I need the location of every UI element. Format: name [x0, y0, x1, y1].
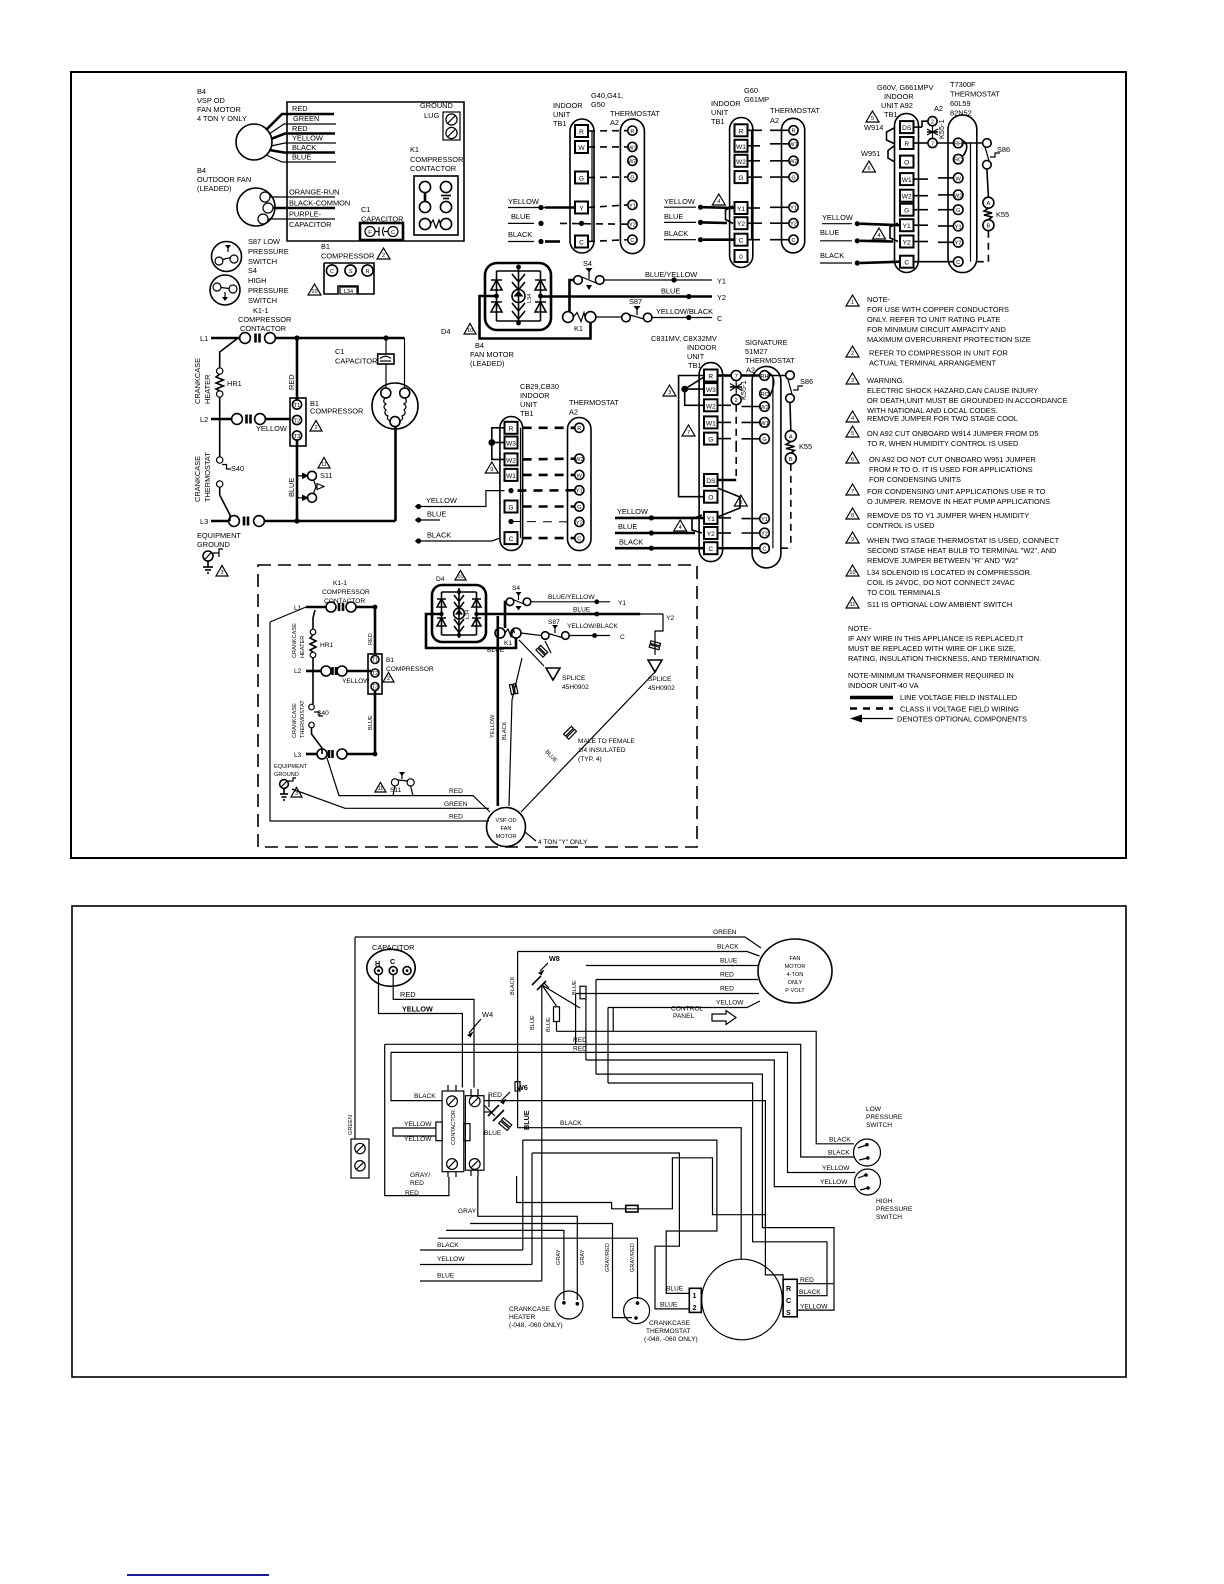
svg-text:THERMOSTAT: THERMOSTAT [745, 356, 795, 365]
wire S87 to C [652, 307, 723, 323]
svg-text:RC: RC [760, 392, 768, 398]
svg-text:G40,G41,: G40,G41, [591, 91, 623, 100]
note triangle 1 [846, 295, 859, 306]
svg-text:RED: RED [720, 972, 734, 979]
svg-text:S: S [349, 269, 353, 275]
svg-text:THERMOSTAT: THERMOSTAT [770, 106, 820, 115]
svg-text:THERMOSTAT: THERMOSTAT [646, 1328, 690, 1335]
wire GREEN vertical + ground lug (bottom) [348, 937, 369, 1178]
staircase wire A to LP top [557, 1031, 855, 1144]
svg-text:BLUE/YELLOW: BLUE/YELLOW [548, 594, 595, 601]
svg-text:RH: RH [954, 141, 962, 147]
ground lug [420, 101, 460, 140]
label EQUIPMENT GROUND (opt) [274, 764, 308, 778]
note triangle 7 [846, 484, 859, 495]
svg-text:Y1: Y1 [903, 223, 911, 230]
svg-text:6: 6 [851, 457, 854, 463]
svg-text:B4: B4 [197, 87, 206, 96]
note triangle 4 [846, 411, 859, 422]
svg-text:T3: T3 [294, 434, 301, 440]
wire L3 [211, 518, 396, 523]
warning triangle 5 [866, 111, 879, 122]
svg-text:W1: W1 [506, 473, 516, 480]
svg-text:G60: G60 [744, 86, 758, 95]
svg-text:TB1: TB1 [688, 361, 702, 370]
labels [711, 86, 820, 126]
svg-text:F: F [368, 230, 372, 236]
svg-text:1: 1 [693, 1291, 697, 1300]
wire GREEN to fan motor [355, 929, 761, 948]
svg-text:L34: L34 [465, 610, 471, 619]
svg-text:RED: RED [720, 986, 734, 993]
switch S40 [217, 457, 245, 521]
label K1-1 compressor contactor (opt) [322, 580, 370, 605]
svg-text:(TYP. 4): (TYP. 4) [578, 756, 602, 763]
svg-text:CLASS II VOLTAGE FIELD WIRING: CLASS II VOLTAGE FIELD WIRING [900, 705, 1019, 714]
dashed enclosure [258, 565, 697, 847]
note triangle 11 [846, 597, 859, 608]
svg-text:Y2: Y2 [955, 241, 962, 247]
terminal strip TB1 (C831MV) [699, 363, 723, 562]
wire BLUE from B4 [266, 153, 336, 163]
svg-text:(-048, -060 ONLY): (-048, -060 ONLY) [509, 1322, 563, 1329]
wires between TB1 (C831MV) and A2 rows [718, 405, 760, 548]
svg-text:UNIT: UNIT [553, 110, 571, 119]
svg-text:REMOVE DS TO Y1 JUMPER WHEN HU: REMOVE DS TO Y1 JUMPER WHEN HUMIDITY [867, 511, 1029, 520]
svg-text:TB1: TB1 [520, 409, 534, 418]
svg-text:A: A [789, 435, 793, 441]
wire D4 left loop (opt) [426, 614, 516, 648]
svg-text:W2: W2 [760, 405, 768, 411]
svg-text:W2: W2 [736, 159, 746, 166]
rectifier D4 [485, 263, 551, 330]
crankcase thermostat (bottom) [624, 1298, 698, 1343]
svg-text:G: G [738, 175, 743, 182]
svg-text:CONTROL: CONTROL [671, 1006, 704, 1013]
svg-text:W: W [578, 145, 585, 152]
svg-text:DS: DS [706, 478, 716, 485]
svg-text:C: C [708, 546, 713, 553]
svg-text:K1: K1 [410, 145, 419, 154]
svg-text:ACTUAL TERMINAL ARRANGEMENT: ACTUAL TERMINAL ARRANGEMENT [869, 359, 997, 368]
svg-text:R: R [509, 426, 514, 433]
warning triangle 10 [308, 284, 321, 295]
svg-text:B1: B1 [321, 242, 330, 251]
svg-text:HIGH: HIGH [248, 276, 266, 285]
svg-text:C: C [579, 240, 584, 247]
equipment ground symbol (opt) [280, 778, 296, 800]
svg-text:BLACK: BLACK [560, 1120, 582, 1127]
wire BLUE to fan motor [586, 958, 758, 966]
svg-text:RED: RED [400, 990, 416, 999]
wire BLACK into contactor [391, 1052, 442, 1100]
labels [520, 382, 619, 418]
svg-text:L3: L3 [200, 517, 208, 526]
svg-text:UNIT: UNIT [520, 400, 538, 409]
svg-text:MUST BE REPLACED WITH WIRE OF: MUST BE REPLACED WITH WIRE OF LIKE SIZE, [848, 644, 1016, 653]
switch S86 (A92) [963, 139, 1010, 169]
svg-text:BLACK: BLACK [502, 721, 508, 740]
jumper DS to Y1 [718, 488, 741, 517]
note triangle 8 [846, 508, 859, 519]
transformer note [848, 671, 1014, 690]
svg-text:RED: RED [573, 1046, 587, 1053]
warning triangle 2b [310, 421, 322, 432]
wire GREEN from B4 [269, 114, 336, 134]
svg-text:A2: A2 [569, 408, 578, 417]
svg-text:K55: K55 [799, 442, 812, 451]
wire RED from capacitor C [393, 975, 474, 1088]
svg-text:C: C [390, 957, 395, 966]
switch S4 (opt) [505, 585, 531, 628]
svg-text:G: G [577, 505, 581, 511]
capacitor C1 branch [335, 347, 377, 366]
svg-text:WARNING.: WARNING. [867, 376, 905, 385]
svg-text:GROUND: GROUND [420, 101, 453, 110]
svg-text:G: G [708, 437, 713, 444]
svg-text:INDOOR: INDOOR [711, 99, 741, 108]
svg-text:8: 8 [739, 500, 742, 506]
wire GRAY from contactor bottom [446, 1176, 577, 1300]
svg-text:ON A92 CUT ONBOARD W914 JUMPER: ON A92 CUT ONBOARD W914 JUMPER FROM D5 [867, 429, 1039, 438]
warning triangle 6 [863, 161, 876, 172]
contacts L1 (opt) [326, 602, 356, 612]
svg-text:INDOOR: INDOOR [687, 343, 717, 352]
svg-text:W2: W2 [506, 457, 516, 464]
svg-text:GRAY/RED: GRAY/RED [605, 1243, 611, 1272]
svg-text:W1: W1 [628, 145, 636, 151]
svg-text:Y2: Y2 [707, 531, 715, 538]
svg-text:BLUE: BLUE [287, 478, 296, 497]
wire motor bottom to L3 [394, 427, 397, 521]
svg-text:HEATER: HEATER [300, 636, 306, 658]
svg-text:BLACK: BLACK [829, 1137, 851, 1144]
svg-text:YELLOW: YELLOW [342, 678, 370, 685]
wire L2 (opt) [306, 670, 371, 673]
svg-text:CRANKCASE: CRANKCASE [292, 703, 298, 738]
svg-text:YELLOW: YELLOW [664, 197, 695, 206]
svg-text:BLUE: BLUE [664, 212, 683, 221]
svg-text:BLUE: BLUE [292, 153, 311, 162]
svg-text:YELLOW: YELLOW [820, 1179, 848, 1186]
dashed class II wires group1 [560, 131, 628, 242]
svg-text:1: 1 [851, 300, 854, 306]
warning triangle 8 [734, 495, 747, 506]
vertical dashed from node 2 to DS [718, 405, 737, 480]
svg-text:BLUE: BLUE [487, 647, 505, 654]
B1 compressor terminal box [290, 398, 306, 446]
control panel label + arrow [671, 1006, 736, 1025]
svg-text:GRAY: GRAY [580, 1249, 586, 1265]
wires GRAY/RED down to crankcase thermostat [438, 1224, 638, 1318]
wire BLUE diagonal to motor (opt) [521, 672, 655, 812]
svg-text:FOR USE WITH COPPER CONDUCTORS: FOR USE WITH COPPER CONDUCTORS [867, 305, 1009, 314]
warning triangle 4 (51M27) [674, 520, 687, 531]
svg-text:9: 9 [851, 537, 854, 543]
terminal strip TB1 (A92) [895, 114, 919, 273]
field wires group3 left [820, 213, 900, 266]
wire RED from contactor pin via W6 [488, 1095, 490, 1107]
svg-text:CONTACTOR: CONTACTOR [410, 164, 456, 173]
svg-text:BLUE: BLUE [368, 715, 374, 730]
svg-text:HR1: HR1 [320, 642, 334, 649]
svg-text:P VOLT: P VOLT [785, 988, 805, 994]
svg-text:RED: RED [488, 1092, 502, 1099]
terminal strip TB1 (G40) [570, 119, 594, 253]
wire BLACK to motor (opt) [502, 658, 522, 806]
svg-text:BLUE: BLUE [720, 958, 738, 965]
wire BLACK G to compressor circle [510, 952, 741, 1260]
relay K55 A-B (A92) [977, 169, 1009, 262]
svg-text:WHEN TWO STAGE THERMOSTAT IS U: WHEN TWO STAGE THERMOSTAT IS USED, CONNE… [867, 536, 1060, 545]
svg-text:MAXIMUM OVERCURRENT PROTECTION: MAXIMUM OVERCURRENT PROTECTION SIZE [867, 335, 1031, 344]
splice 1 with connector [519, 640, 589, 691]
svg-text:T7300F: T7300F [950, 80, 976, 89]
svg-text:(-048, -060 ONLY): (-048, -060 ONLY) [644, 1336, 698, 1343]
svg-text:GREEN: GREEN [293, 114, 319, 123]
crankcase thermostat label (opt) [292, 700, 306, 738]
svg-text:4: 4 [679, 525, 682, 531]
svg-text:3: 3 [220, 570, 223, 576]
svg-text:UNIT: UNIT [711, 108, 729, 117]
svg-text:Y1: Y1 [761, 517, 768, 523]
svg-text:G: G [956, 208, 960, 214]
svg-text:BLUE: BLUE [484, 1130, 502, 1137]
S87 low pressure switch [212, 242, 242, 272]
svg-text:3: 3 [668, 390, 671, 396]
svg-text:SPLICE: SPLICE [562, 675, 586, 682]
svg-text:Y2: Y2 [903, 240, 911, 247]
wires between TB1-A92 and T7300F [914, 178, 954, 262]
left field wires stack (bottom) [420, 985, 542, 1281]
staircase wire E to compressor BLACK loop [608, 1083, 827, 1296]
svg-text:S40: S40 [317, 710, 329, 717]
W6 connector [484, 1082, 531, 1137]
svg-text:YELLOW: YELLOW [404, 1136, 432, 1143]
contacts L2 (opt) [321, 666, 347, 676]
svg-text:GRAY/: GRAY/ [410, 1172, 430, 1179]
svg-text:A2: A2 [770, 116, 779, 125]
svg-text:10: 10 [467, 328, 473, 334]
svg-text:MOTOR: MOTOR [496, 834, 517, 840]
wire L1 corner down to motor [404, 338, 406, 389]
label S4 HIGH PRESSURE SWITCH [248, 266, 289, 305]
motor VSP OD (opt) [487, 808, 526, 847]
labels [877, 80, 1000, 119]
svg-text:GROUND: GROUND [197, 540, 230, 549]
bottom diagram frame [72, 906, 1126, 1377]
svg-text:FAN: FAN [790, 956, 801, 962]
svg-text:Y2: Y2 [576, 520, 583, 526]
svg-text:7: 7 [851, 489, 854, 495]
verticals from motor wires down [557, 980, 614, 1084]
K1 contactor box [414, 176, 458, 235]
svg-text:BLACK: BLACK [414, 1093, 436, 1100]
svg-text:K55-1: K55-1 [739, 380, 748, 400]
svg-text:5: 5 [851, 431, 854, 437]
svg-text:FOR CONDENSING UNITS: FOR CONDENSING UNITS [869, 475, 961, 484]
W8 connector [532, 954, 580, 1008]
jumper R-W3-W2 (CB29) [489, 428, 504, 460]
wire RED2 from B4 [271, 124, 335, 139]
svg-text:COMPRESSOR: COMPRESSOR [410, 155, 463, 164]
svg-text:R: R [708, 374, 713, 381]
svg-text:B: B [789, 457, 793, 463]
svg-text:L34: L34 [344, 289, 353, 295]
svg-text:BLUE: BLUE [437, 1273, 455, 1280]
svg-text:RED: RED [292, 124, 308, 133]
svg-text:10: 10 [849, 570, 855, 576]
relay K1 contacts [563, 312, 596, 333]
svg-text:UNIT: UNIT [687, 352, 705, 361]
warning triangle 4 (G60) [712, 194, 725, 205]
warning triangle 7 [682, 425, 695, 436]
svg-text:G: G [904, 208, 909, 215]
svg-text:ELECTRIC SHOCK HAZARD,CAN CAUS: ELECTRIC SHOCK HAZARD,CAN CAUSE INJURY [867, 386, 1038, 395]
label B1 COMPRESSOR [310, 399, 363, 416]
svg-text:BLACK: BLACK [828, 1150, 850, 1157]
svg-text:CB29,CB30: CB29,CB30 [520, 382, 559, 391]
jumper Y1-Y2 (A92) [890, 223, 898, 242]
svg-text:R: R [786, 1284, 792, 1293]
wire RED to fan motor [596, 972, 758, 980]
svg-text:Y2: Y2 [761, 531, 768, 537]
staircase wire C BLUE to HP bottom [586, 1060, 855, 1187]
thermostat A2 (51M27) [752, 366, 781, 568]
svg-text:K1-1: K1-1 [333, 580, 347, 587]
svg-text:45H0902: 45H0902 [648, 685, 675, 692]
svg-text:FROM R TO O. IT IS USED FOR AP: FROM R TO O. IT IS USED FOR APPLICATIONS [869, 465, 1033, 474]
field wires group5 left [615, 507, 704, 551]
wire D4 right BLUE to Y2 (opt) [477, 607, 675, 623]
relay K55 A-B (51M27) [781, 403, 812, 549]
svg-text:L34: L34 [527, 294, 533, 303]
resistor HR1 [216, 338, 242, 457]
wire S4 to Y1 (opt) [531, 594, 626, 607]
label B4 OUTDOOR FAN (LEADED) [197, 166, 251, 193]
svg-text:Y2: Y2 [629, 223, 636, 229]
svg-text:G: G [762, 437, 766, 443]
svg-text:GRAY: GRAY [458, 1208, 477, 1215]
svg-text:YELLOW: YELLOW [716, 1000, 744, 1007]
label B1 COMPRESSOR (opt) [386, 657, 434, 673]
warning triangle 2 [377, 248, 390, 259]
svg-text:ORANGE-RUN: ORANGE-RUN [289, 188, 340, 197]
svg-text:8: 8 [851, 513, 854, 519]
svg-text:T1: T1 [372, 658, 379, 664]
svg-text:B1: B1 [386, 657, 394, 664]
thermostat A2 (G40) [620, 119, 644, 254]
wire F to compressor RED stub [484, 1101, 834, 1284]
svg-text:G: G [579, 176, 584, 183]
svg-text:S86: S86 [800, 377, 813, 386]
contactor labels [404, 1092, 502, 1197]
jumper Y1-Y2 (G60) [726, 206, 734, 224]
svg-text:COMPRESSOR: COMPRESSOR [238, 315, 291, 324]
dashed wires (CB29) [511, 428, 575, 538]
switch S4 (suction) [570, 259, 605, 311]
svg-text:LUG: LUG [424, 111, 439, 120]
crankcase heater label (opt) [292, 623, 306, 658]
svg-text:THERMOSTAT: THERMOSTAT [569, 398, 619, 407]
svg-text:C1: C1 [335, 347, 344, 356]
svg-text:W1: W1 [736, 144, 746, 151]
svg-text:YELLOW: YELLOW [822, 213, 853, 222]
svg-text:TO R, WHEN HUMIDITY CONTROL IS: TO R, WHEN HUMIDITY CONTROL IS USED [867, 439, 1018, 448]
svg-text:A: A [987, 201, 991, 207]
svg-text:THERMOSTAT: THERMOSTAT [300, 700, 306, 738]
svg-text:PURPLE-: PURPLE- [289, 210, 322, 219]
switch S11 optional [297, 471, 333, 502]
svg-text:COMPRESSOR: COMPRESSOR [322, 589, 370, 596]
svg-text:W1: W1 [706, 420, 716, 427]
svg-text:VSP OD: VSP OD [197, 96, 225, 105]
svg-text:OR DEATH,UNIT MUST BE GROUNDED: OR DEATH,UNIT MUST BE GROUNDED IN ACCORD… [867, 396, 1067, 405]
svg-text:3: 3 [295, 791, 298, 797]
svg-text:S4: S4 [583, 259, 592, 268]
svg-text:CONTROL IS USED: CONTROL IS USED [867, 521, 934, 530]
svg-text:R: R [904, 141, 909, 148]
svg-text:CRANKCASE: CRANKCASE [292, 623, 298, 658]
svg-text:S87: S87 [548, 619, 560, 626]
resistor HR1 (opt) [310, 610, 334, 704]
svg-text:BLACK: BLACK [510, 976, 516, 995]
field wires group2 left [664, 197, 735, 242]
terminal strip TB1 (G60) [730, 118, 753, 268]
svg-text:O: O [904, 160, 909, 167]
svg-text:10: 10 [311, 289, 317, 295]
svg-text:4: 4 [851, 416, 854, 422]
svg-text:W8: W8 [549, 954, 560, 963]
svg-text:S40: S40 [231, 464, 244, 473]
svg-text:L2: L2 [200, 415, 208, 424]
svg-text:EQUIPMENT: EQUIPMENT [274, 764, 308, 770]
svg-text:C: C [391, 230, 395, 236]
svg-text:W2: W2 [628, 159, 636, 165]
svg-text:BLUE: BLUE [666, 1286, 684, 1293]
wire S87 to C (opt) [567, 623, 625, 641]
K55-1 spark gap [927, 119, 946, 139]
wire H to terminal 1 [523, 1140, 717, 1293]
splice 2 with wire from Y2 [648, 614, 675, 692]
jumper R to W3 dot (51M27) [682, 377, 704, 405]
wire RED vertical to T1 [287, 338, 297, 400]
svg-text:COMPRESSOR: COMPRESSOR [386, 666, 434, 673]
svg-text:PRESSURE: PRESSURE [876, 1206, 913, 1213]
svg-text:GROUND: GROUND [274, 772, 299, 778]
svg-text:2: 2 [931, 120, 934, 126]
label MALE TO FEMALE [578, 738, 636, 763]
svg-text:CAPACITOR: CAPACITOR [335, 357, 377, 366]
staircase wire B RED to LP bottom [385, 1037, 854, 1157]
wire L1 (opt) [306, 605, 377, 610]
wire L2 [211, 418, 290, 421]
B1 compressor (plug) label [321, 242, 374, 261]
svg-text:RED: RED [800, 1277, 814, 1284]
compressor circle (bottom) [702, 1259, 783, 1340]
svg-text:BLUE: BLUE [573, 607, 591, 614]
control box outline [287, 102, 464, 241]
svg-text:4 TON "Y" ONLY: 4 TON "Y" ONLY [538, 839, 588, 846]
svg-text:W2: W2 [902, 194, 912, 201]
svg-text:CONTACTOR: CONTACTOR [451, 1110, 457, 1145]
svg-text:2: 2 [387, 676, 390, 682]
svg-text:HEATER: HEATER [509, 1314, 535, 1321]
wire YELLOW from B4 [271, 134, 336, 147]
svg-text:YELLOW: YELLOW [617, 507, 648, 516]
svg-text:HR1: HR1 [227, 379, 242, 388]
connector bar BLUE (right) [572, 980, 586, 999]
